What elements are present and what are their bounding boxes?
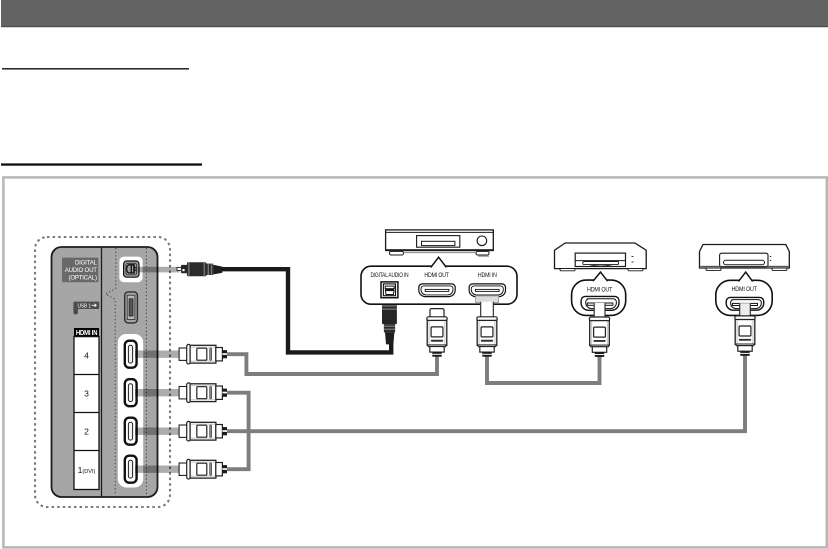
svg-text:DIGITAL AUDIO IN: DIGITAL AUDIO IN [371, 272, 409, 279]
svg-text:4: 4 [84, 351, 89, 361]
panel divider line [101, 248, 103, 497]
device 1 callout bubble [572, 272, 626, 315]
device 2 callout bubble [716, 272, 772, 315]
HDMI connector at receiver HDMI IN [477, 302, 497, 357]
svg-text:HDMI IN: HDMI IN [478, 273, 497, 279]
label DIGITAL AUDIO OUT (OPTICAL) [62, 258, 98, 283]
header bar [1, 0, 828, 27]
USB port [125, 292, 138, 323]
label HDMI IN (receiver) [478, 273, 497, 279]
receiver HDMI IN socket [469, 284, 505, 297]
optical cable stub [138, 267, 180, 273]
TV HDMI connector 1 [179, 459, 227, 479]
HDMI cable stub 2 [135, 428, 179, 435]
receiver HDMI OUT socket [419, 284, 455, 297]
optical plug (receiver end) [382, 296, 397, 345]
TV dashed outline [35, 237, 170, 507]
svg-text:3: 3 [84, 389, 89, 399]
TV HDMI connector 3 [179, 383, 227, 403]
HDMI IN label [74, 328, 99, 337]
label DIGITAL AUDIO IN [371, 272, 409, 279]
wire W4: receiver HDMI IN to device 1 [487, 354, 600, 383]
svg-text:HDMI OUT: HDMI OUT [732, 287, 758, 293]
optical plug (TV end) [177, 262, 222, 276]
svg-text:HDMI OUT: HDMI OUT [424, 273, 449, 279]
optical port (TV) [119, 257, 142, 283]
device 1 (DVD player) [555, 243, 647, 271]
receiver optical port DIGITAL AUDIO IN [381, 282, 398, 298]
svg-text:HDMI OUT: HDMI OUT [587, 287, 613, 293]
label HDMI OUT (device 2) [732, 287, 758, 293]
HDMI socket 4 [125, 341, 137, 368]
HDMI socket 3 [125, 379, 137, 406]
AV receiver device [386, 230, 494, 256]
device 2 (DVD player) [700, 245, 790, 271]
HDMI socket 1 [125, 456, 137, 483]
TV side panel [52, 247, 158, 497]
svg-text:(OPTICAL): (OPTICAL) [68, 274, 96, 281]
svg-text:USB 1: USB 1 [78, 303, 92, 309]
svg-text:AUDIO OUT: AUDIO OUT [65, 267, 97, 274]
HDMI socket 2 [125, 418, 137, 445]
USB 1 label [73, 302, 99, 315]
HDMI input cells 4/3/2/1(DVI) [74, 337, 99, 490]
label HDMI OUT (device 1) [587, 287, 613, 293]
heading underline 2 [1, 163, 202, 165]
device 2 HDMI socket [726, 297, 764, 310]
heading underline 1 [2, 68, 189, 70]
HDMI cable stub 4 [135, 351, 179, 358]
label HDMI OUT (receiver) [424, 273, 449, 279]
svg-text:2: 2 [84, 427, 89, 437]
HDMI connector at device 2 [735, 303, 755, 356]
HDMI port strip [118, 334, 143, 488]
wire W1: TV HDMI4 to receiver HDMI OUT [227, 354, 437, 374]
device 1 HDMI socket [581, 296, 619, 310]
panel dotted line A with jog [106, 248, 116, 495]
panel dotted line B [145, 248, 147, 496]
wire W3: TV HDMI2 to device 2 [227, 353, 745, 431]
diagram frame [3, 177, 826, 547]
receiver callout bubble [361, 257, 517, 304]
TV HDMI connector 4 [179, 344, 227, 364]
HDMI connector at device 1 [589, 303, 609, 357]
receiver HDMI IN inserted plug collar [476, 296, 499, 303]
optical cable (black) [222, 269, 391, 352]
svg-text:DIGITAL: DIGITAL [75, 259, 97, 266]
wire W2: TV HDMI3 to TV HDMI1 [227, 393, 249, 470]
HDMI cable stub 1 [135, 466, 179, 473]
TV HDMI connector 2 [179, 421, 227, 441]
HDMI connector at receiver HDMI OUT [427, 309, 447, 357]
HDMI cable stub 3 [135, 389, 179, 396]
